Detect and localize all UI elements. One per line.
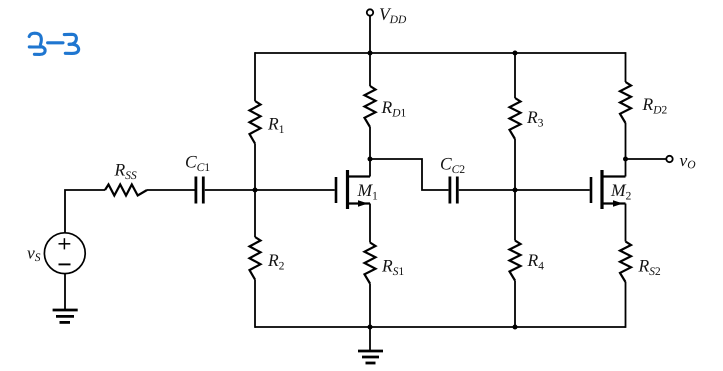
junction dot ground/bottom rail — [368, 325, 373, 330]
wire CC2 to R3/R4 node — [459, 189, 515, 191]
wire R3 to gate node — [514, 139, 516, 190]
label RD1 — [381, 102, 405, 117]
wire R1 to node — [254, 144, 256, 191]
wire R4 to bottom rail — [514, 281, 516, 328]
resistor R2 — [250, 237, 261, 280]
vO terminal — [666, 156, 672, 162]
wire top rail — [255, 52, 626, 54]
label 3-3 (blue handwritten) — [29, 33, 78, 54]
wire bottom rail — [255, 326, 626, 328]
wire RS2 to bottom rail — [625, 282, 627, 328]
resistor R4 — [510, 241, 521, 281]
label VDD — [380, 8, 406, 23]
wire RD2 to drain node — [625, 123, 627, 177]
source vS — [44, 233, 85, 274]
wire M2 gate lead — [515, 189, 590, 191]
capacitor CC1 — [196, 177, 203, 204]
wire RD1 to drain node — [369, 127, 371, 177]
wire M2 source to RS2 — [625, 204, 627, 242]
junction dot R1/R2/gate — [253, 188, 258, 193]
wire gate node to R4 — [514, 190, 516, 241]
wire source vS to RSS — [65, 190, 105, 233]
resistor RD2 — [620, 82, 631, 123]
wire RS1 to bottom rail — [369, 284, 371, 328]
wire R2 to bottom rail — [254, 280, 256, 328]
junction dot M2 drain node — [623, 157, 628, 162]
capacitor CC2 — [450, 177, 457, 204]
label vO — [680, 158, 696, 168]
VDD terminal — [367, 9, 373, 15]
wire vS to ground — [64, 274, 66, 310]
wire R1 top lead — [254, 52, 256, 101]
transistor M2 — [591, 170, 626, 209]
label M2 — [611, 185, 631, 200]
wire VDD to top rail — [369, 16, 371, 53]
resistor RD1 — [365, 86, 376, 127]
junction dot VDD/top rail — [368, 51, 373, 56]
resistor RS2 — [620, 242, 631, 283]
junction dot R3/R4/gate — [513, 188, 518, 193]
label RS2 — [638, 260, 660, 275]
wire R3 top lead — [514, 53, 516, 98]
junction dot R3/top rail — [513, 51, 518, 56]
wire drain node to vO — [626, 158, 667, 160]
wire M1 source to RS1 — [369, 204, 371, 243]
resistor RSS — [105, 185, 147, 196]
wire RSS to CC1 — [147, 189, 195, 191]
label RS1 — [382, 260, 404, 275]
wire RD2 top lead — [625, 52, 627, 82]
transistor M1 — [336, 170, 370, 209]
wire node to R2 — [254, 190, 256, 237]
label R3 — [527, 112, 543, 127]
label RSS — [114, 164, 136, 179]
ground (main, below bottom rail) — [358, 327, 383, 363]
label R2 — [268, 255, 284, 270]
wire CC1 to R1/R2 node — [205, 189, 255, 191]
junction dot M1 drain node — [368, 157, 373, 162]
junction dot R4/bottom rail — [513, 325, 518, 330]
label vS — [27, 250, 40, 261]
label R4 — [527, 255, 543, 270]
resistor R1 — [250, 101, 261, 144]
label R1 — [268, 118, 284, 133]
label CC2 — [441, 158, 464, 173]
label M1 — [357, 185, 377, 200]
resistor R3 — [510, 98, 521, 139]
label CC1 — [186, 156, 209, 171]
wire RD1 top lead — [369, 53, 371, 86]
ground (below vS) — [53, 310, 78, 322]
wire drain node to CC2 (step) — [370, 159, 448, 190]
wire M1 gate lead — [255, 189, 335, 191]
label RD2 — [642, 99, 666, 114]
resistor RS1 — [365, 243, 376, 284]
